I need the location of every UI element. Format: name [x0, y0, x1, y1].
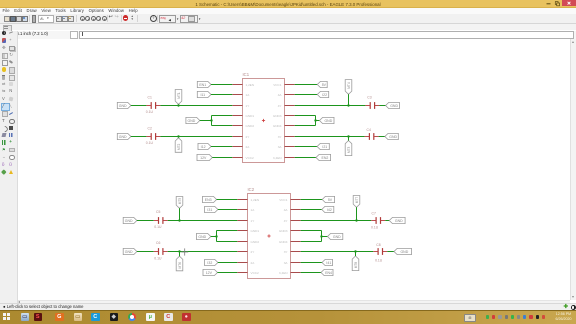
wire GND to C1: [131, 105, 147, 107]
node EN2: [316, 154, 331, 160]
svg-text:MT1: MT1: [177, 92, 181, 99]
junction GND branch left IC1: [210, 119, 212, 121]
ground flag GND at C4: [385, 133, 398, 139]
node I41: [322, 259, 333, 265]
svg-text:4Y: 4Y: [278, 104, 282, 108]
svg-text:MT2: MT2: [177, 143, 181, 150]
svg-text:GND: GND: [390, 104, 398, 108]
svg-text:4Y: 4Y: [284, 219, 288, 223]
wire net 12V to IC1 pin VCC2: [212, 157, 232, 159]
wire IC1 pin GND3 to branch: [295, 115, 316, 117]
node EN4: [321, 269, 333, 275]
svg-text:0.1U: 0.1U: [154, 257, 162, 261]
node 12V at IC2: [203, 269, 218, 275]
svg-text:GND: GND: [324, 119, 332, 123]
wire GND to C6: [137, 251, 154, 253]
svg-text:3,4EN: 3,4EN: [273, 156, 282, 160]
svg-text:GND4: GND4: [273, 124, 282, 128]
svg-text:2Y: 2Y: [246, 135, 250, 139]
wire net EN1 to IC1 pin 1,2EN: [211, 84, 232, 86]
capacitor C1: [146, 102, 160, 109]
node I21: [317, 143, 329, 149]
node I42: [322, 206, 334, 212]
junction GND branch left IC2: [215, 235, 217, 237]
wire IC1 pin 3Y to C4 net MT3: [295, 136, 365, 138]
wire C1 to IC1 pin 1Y net MT1: [160, 105, 232, 107]
svg-text:0.1U: 0.1U: [371, 225, 379, 229]
wire GND to IC1 pin GND1: [212, 115, 233, 117]
svg-text:2Y: 2Y: [251, 250, 255, 254]
svg-text:EN1: EN1: [199, 83, 206, 87]
svg-text:GND: GND: [125, 250, 133, 254]
svg-text:I22: I22: [322, 93, 327, 97]
ground flag GND at C1: [117, 102, 131, 108]
junction GND branch right IC2: [320, 235, 322, 237]
wire GND to branch: [200, 120, 212, 122]
pin stub IC2 left row 8: [237, 272, 247, 274]
wire vertical GND branch left IC1: [211, 116, 213, 126]
svg-text:GND2: GND2: [251, 240, 260, 244]
svg-text:1,2EN: 1,2EN: [251, 198, 260, 202]
capacitor C2: [146, 133, 160, 140]
svg-text:GND3: GND3: [273, 114, 282, 118]
op-amp IC2 (L293D driver): [248, 187, 291, 279]
node 5V at IC2: [322, 196, 334, 202]
pin stub IC1 right row 8: [285, 157, 295, 159]
svg-text:0.1U: 0.1U: [146, 141, 154, 145]
svg-text:C3: C3: [367, 96, 371, 100]
svg-text:VCC2: VCC2: [246, 156, 255, 160]
svg-text:I12: I12: [201, 145, 206, 149]
capacitor C8: [373, 248, 387, 255]
ground flag GND at C8: [394, 248, 412, 254]
wire C7 to GND: [385, 220, 389, 222]
wire vertical GND branch right IC1: [315, 116, 317, 126]
wire MT8 label stub: [355, 252, 357, 257]
ground flag GND at C3: [386, 102, 400, 108]
wire net I11 to IC1 pin 1A: [211, 94, 232, 96]
junction MT2 wire: [177, 135, 179, 137]
node MT6: [176, 256, 183, 271]
toolbar row 1: [0, 14, 576, 24]
wire IC2 pin 4Y to C7 net MT7: [301, 220, 372, 222]
pin stub IC2 right row 1: [291, 199, 301, 201]
wire GND to IC1 pin GND2: [212, 125, 233, 127]
node I12: [198, 143, 211, 149]
junction MT4 wire: [347, 104, 349, 106]
pin stub IC1 left row 1: [232, 84, 242, 86]
pin stub IC1 left row 6: [232, 136, 242, 138]
ground flag GND mid-left IC1: [186, 117, 200, 123]
vertical scrollbar: [570, 39, 576, 300]
svg-text:3Y: 3Y: [278, 135, 282, 139]
wire MT5 label stub: [179, 208, 181, 220]
svg-text:1Y: 1Y: [246, 104, 250, 108]
wire IC2 pin VCC1 to 5V: [301, 199, 323, 201]
ground flag GND mid-right IC1: [320, 117, 335, 123]
svg-text:3,4EN: 3,4EN: [279, 271, 288, 275]
wire IC1 pin GND4 to branch: [295, 125, 316, 127]
node MT7: [353, 196, 360, 208]
node EN3: [203, 196, 217, 202]
wire vertical GND branch right IC2: [321, 231, 323, 242]
wire branch to GND flag IC2: [322, 236, 328, 238]
node MT3: [345, 141, 352, 156]
pin stub IC2 right row 7: [291, 262, 301, 264]
svg-text:C4: C4: [367, 128, 371, 132]
capacitor C5: [154, 217, 168, 224]
wire C2 to IC1 pin 2Y net MT2: [160, 136, 232, 138]
svg-text:I32: I32: [207, 261, 212, 265]
pin stub IC1 left row 3: [232, 105, 242, 107]
pin stub IC2 left row 2: [237, 209, 247, 211]
junction MT3 wire: [347, 135, 349, 137]
junction MT5 wire: [178, 219, 180, 221]
svg-text:C8: C8: [376, 243, 380, 247]
svg-text:I21: I21: [322, 145, 327, 149]
node EN1: [197, 81, 211, 87]
svg-text:C1: C1: [148, 95, 152, 99]
mouse crosshair cursor: [181, 248, 188, 255]
svg-text:MT3: MT3: [347, 146, 351, 153]
menu bar: [0, 8, 576, 14]
title bar: [0, 0, 576, 8]
capacitor C7: [371, 217, 385, 224]
ground flag GND at C6: [123, 248, 137, 254]
wire IC2 pin 3Y to C8 net MT8: [301, 251, 374, 253]
node 5V at IC1: [317, 81, 327, 87]
wire IC2 pin 3,4EN to EN4: [301, 272, 321, 274]
node MT4: [345, 80, 352, 95]
wire IC2 pin GND4 to branch: [301, 241, 322, 243]
node MT8: [352, 256, 359, 271]
svg-text:GND1: GND1: [251, 229, 260, 233]
svg-text:1Y: 1Y: [251, 219, 255, 223]
ground flag GND at C2: [117, 133, 131, 139]
svg-text:MT6: MT6: [178, 262, 182, 269]
pin stub IC2 left row 7: [237, 262, 247, 264]
pin stub IC1 left row 8: [232, 157, 242, 159]
pin stub IC2 left row 6: [237, 251, 247, 253]
wire IC2 pin 3A to I41: [301, 262, 322, 264]
node 12V at IC1: [197, 154, 212, 160]
wire GND to C2: [131, 136, 147, 138]
svg-text:5V: 5V: [328, 198, 333, 202]
svg-text:GND: GND: [333, 235, 341, 239]
svg-text:IC2: IC2: [248, 187, 255, 192]
pin stub IC2 right row 4: [291, 230, 301, 232]
wire IC1 pin 3,4EN to EN2: [295, 157, 316, 159]
svg-text:MT5: MT5: [178, 198, 182, 205]
junction GND branch right IC1: [314, 119, 316, 121]
svg-text:GND: GND: [400, 250, 408, 254]
node I22: [317, 91, 328, 97]
wire C3 to GND: [379, 105, 385, 107]
svg-text:0.1U: 0.1U: [146, 110, 154, 114]
svg-text:C7: C7: [372, 211, 376, 215]
wire net I32 to IC2 pin 2A: [218, 262, 237, 264]
pin stub IC1 right row 6: [285, 136, 295, 138]
svg-text:MT7: MT7: [355, 197, 359, 204]
svg-text:VCC1: VCC1: [273, 83, 282, 87]
op-amp IC1 (L293D driver): [243, 72, 285, 163]
pin stub IC1 right row 4: [285, 115, 295, 117]
svg-text:GND: GND: [389, 135, 397, 139]
wire net I12 to IC1 pin 2A: [211, 146, 232, 148]
svg-text:5V: 5V: [322, 83, 327, 87]
svg-text:GND1: GND1: [246, 114, 255, 118]
svg-text:MT8: MT8: [354, 262, 358, 269]
svg-text:EN3: EN3: [205, 198, 212, 202]
close button: [562, 0, 576, 6]
svg-text:EN2: EN2: [321, 156, 328, 160]
status bar: [0, 303, 576, 311]
svg-text:GND4: GND4: [279, 240, 288, 244]
wire MT4 label stub: [348, 94, 350, 105]
pin stub IC1 left row 7: [232, 146, 242, 148]
node MT1: [175, 90, 182, 105]
pin stub IC2 left row 3: [237, 220, 247, 222]
svg-text:0.1U: 0.1U: [375, 259, 383, 263]
wire GND to IC2 pin GND1: [217, 230, 238, 232]
pin stub IC2 left row 4: [237, 230, 247, 232]
pin stub IC2 left row 5: [237, 241, 247, 243]
wire IC2 pin GND3 to branch: [301, 230, 322, 232]
pin stub IC1 left row 2: [232, 94, 242, 96]
capacitor C3: [365, 102, 379, 109]
svg-text:I31: I31: [207, 208, 212, 212]
pin stub IC2 right row 3: [291, 220, 301, 222]
wire C6 to IC2 pin 2Y net MT6: [168, 251, 238, 253]
wire MT3 label stub: [348, 137, 350, 141]
ground flag GND mid-left IC2: [197, 233, 211, 239]
svg-text:I41: I41: [326, 261, 331, 265]
svg-text:C2: C2: [148, 127, 152, 131]
wire C8 to GND: [387, 251, 394, 253]
pin stub IC2 right row 6: [291, 251, 301, 253]
svg-text:MT4: MT4: [347, 82, 351, 89]
svg-text:I42: I42: [327, 208, 332, 212]
svg-text:C6: C6: [156, 241, 160, 245]
wire C5 to IC2 pin 1Y net MT5: [168, 220, 238, 222]
node I32: [205, 259, 218, 265]
svg-text:GND: GND: [395, 219, 403, 223]
pin stub IC1 right row 1: [285, 84, 295, 86]
canvas: [18, 39, 570, 300]
taskbar: [0, 310, 576, 324]
svg-text:GND: GND: [125, 219, 133, 223]
ground flag GND at C7: [389, 217, 405, 223]
wire net I31 to IC2 pin 1A: [218, 209, 237, 211]
pin stub IC2 right row 8: [291, 272, 301, 274]
wire net EN3 to IC2 pin 1,2EN: [217, 199, 238, 201]
svg-text:IC1: IC1: [243, 72, 250, 77]
svg-text:0.1U: 0.1U: [154, 225, 162, 229]
svg-text:1,2EN: 1,2EN: [246, 83, 255, 87]
ground flag GND at C5: [123, 217, 137, 223]
svg-text:EN4: EN4: [325, 271, 332, 275]
svg-text:VCC2: VCC2: [251, 271, 260, 275]
svg-text:12V: 12V: [200, 156, 207, 160]
pin stub IC2 right row 5: [291, 241, 301, 243]
pin stub IC1 right row 2: [285, 94, 295, 96]
pin stub IC2 left row 1: [237, 199, 247, 201]
svg-text:GND: GND: [119, 135, 127, 139]
wire MT7 label stub: [356, 207, 358, 220]
capacitor C4: [365, 133, 379, 140]
node I11: [197, 91, 211, 97]
svg-text:3Y: 3Y: [284, 250, 288, 254]
wire GND to IC2 pin GND2: [217, 241, 238, 243]
wire IC1 pin VCC1 to 5V: [295, 84, 318, 86]
svg-text:GND3: GND3: [279, 229, 288, 233]
node MT2: [175, 138, 182, 153]
wire IC1 pin 3A to I21: [295, 146, 317, 148]
left tool palette: [0, 31, 18, 304]
svg-text:I11: I11: [200, 93, 205, 97]
junction MT7 wire: [355, 219, 357, 221]
node I31: [205, 206, 218, 212]
wire IC2 pin 4A to I42: [301, 209, 322, 211]
svg-text:GND: GND: [198, 235, 206, 239]
coordinate / command row: [16, 31, 576, 40]
svg-text:GND2: GND2: [246, 124, 255, 128]
svg-text:C5: C5: [156, 210, 160, 214]
junction MT6 wire: [178, 250, 180, 252]
wire IC1 pin 4Y to C3 net MT4: [295, 105, 366, 107]
pin stub IC2 right row 2: [291, 209, 301, 211]
junction MT1 wire: [177, 104, 179, 106]
ground flag GND mid-right IC2: [328, 233, 343, 239]
toolbar row 2 (grid button): [0, 24, 576, 31]
wire IC1 pin 4A to I22: [295, 94, 318, 96]
wire net 12V to IC2 pin VCC2: [218, 272, 238, 274]
wire branch to GND flag: [316, 120, 320, 122]
wire MT6 label stub: [179, 252, 181, 257]
node MT5: [176, 197, 183, 209]
pin stub IC1 right row 5: [285, 125, 295, 127]
pin stub IC1 right row 3: [285, 105, 295, 107]
svg-text:12V: 12V: [206, 271, 213, 275]
capacitor C6: [154, 248, 168, 255]
pin stub IC1 left row 4: [232, 115, 242, 117]
svg-text:GND: GND: [119, 104, 127, 108]
pin stub IC1 left row 5: [232, 125, 242, 127]
svg-text:GND: GND: [188, 119, 196, 123]
junction MT8 wire: [354, 250, 356, 252]
wire vertical GND branch left IC2: [216, 231, 218, 242]
svg-text:VCC1: VCC1: [279, 198, 288, 202]
horizontal scrollbar: [18, 300, 571, 304]
wire GND to C5: [137, 220, 154, 222]
wire C4 to GND: [379, 136, 385, 138]
pin stub IC1 right row 7: [285, 146, 295, 148]
wire GND to branch IC2: [211, 236, 217, 238]
